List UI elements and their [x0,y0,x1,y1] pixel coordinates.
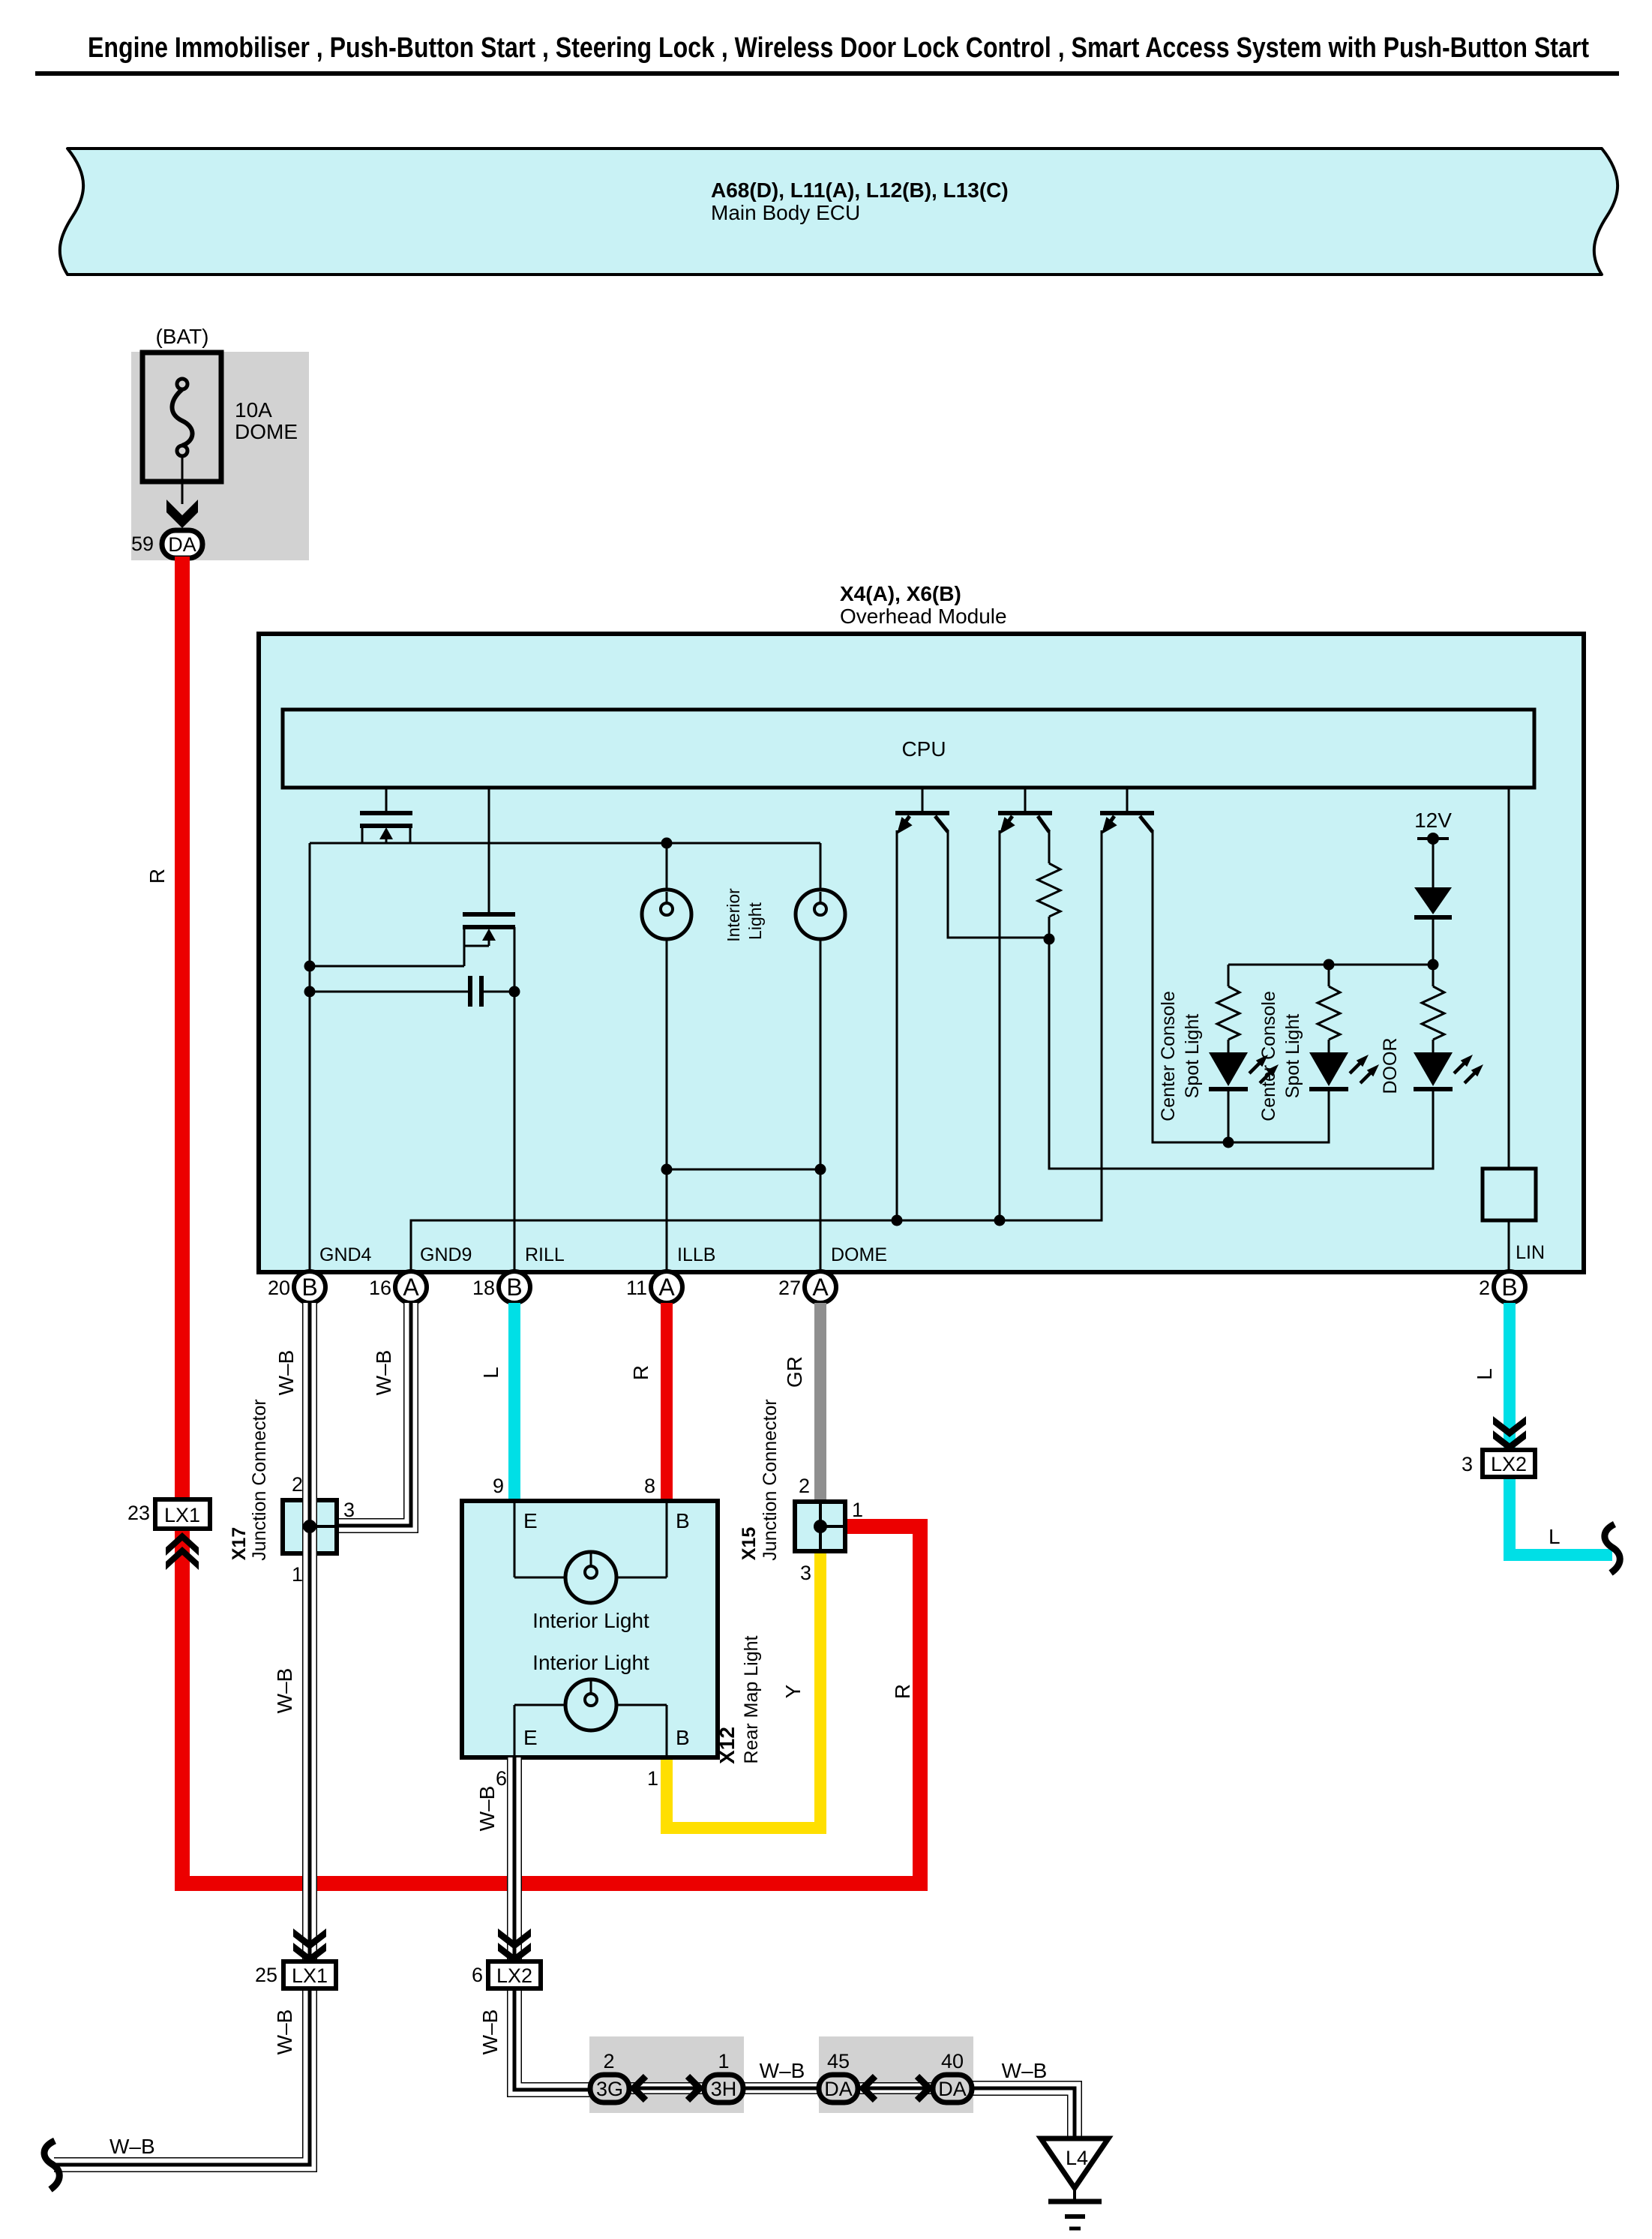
svg-text:Interior: Interior [724,888,743,942]
svg-text:Spot Light: Spot Light [1282,1014,1303,1099]
pin 18(B) RILL [499,1271,530,1303]
svg-text:1: 1 [852,1499,863,1521]
resistor R1 (Q4 collector) [1038,830,1060,939]
svg-text:A: A [658,1274,675,1301]
wire R: ILLB pin to X12 terminal 8 [661,1303,673,1504]
svg-text:Y: Y [781,1684,805,1698]
svg-text:23: 23 [127,1502,150,1524]
svg-text:E: E [523,1726,538,1749]
svg-text:W–B: W–B [273,1668,296,1714]
wire: lamp1 to ILLB pin [666,939,668,1271]
connector LX1 (23) [155,1499,210,1529]
svg-text:W–B: W–B [372,1350,395,1396]
svg-text:1: 1 [647,1767,658,1790]
svg-text:W–B: W–B [109,2135,155,2158]
resistor R3 (center console spot light 2) [1318,965,1340,1052]
transistor Q1 (MOSFET, high-side driver) [360,788,412,843]
svg-text:3: 3 [1462,1453,1473,1475]
svg-text:DOME: DOME [831,1244,887,1265]
lamp: X12 interior light 2 [514,1679,667,1757]
title underline [35,71,1619,76]
svg-text:2: 2 [1479,1277,1490,1299]
label Center Console Spot Light 1 (rotated) [1158,991,1203,1121]
ground L4 [1041,2138,1108,2228]
wire L: LIN pin to LX2 and break [1510,1303,1612,1555]
svg-text:CPU: CPU [901,737,946,761]
svg-text:20: 20 [268,1277,290,1299]
svg-text:B: B [676,1509,690,1532]
svg-text:GND4: GND4 [319,1244,372,1265]
svg-text:Center Console: Center Console [1258,991,1279,1121]
svg-text:GR: GR [783,1356,806,1388]
mating arrows DA/DA [863,2076,929,2100]
wire break squiggle (bottom right L) [1605,1524,1620,1573]
svg-text:A: A [812,1274,829,1301]
junction dot LED1 cathode [1223,1137,1234,1148]
junction dot Q3 emitter [892,1215,903,1226]
wire Y: X15 terminal 3 to X12 terminal 1 [667,1545,820,1828]
svg-text:12V: 12V [1414,809,1452,832]
wire W-B: DA to ground L4 [972,2088,1075,2138]
resistor R4 (door LED) [1422,965,1444,1052]
svg-text:L: L [1473,1368,1496,1380]
svg-text:16: 16 [369,1277,391,1299]
wire: Q4 emitter to ground rail [999,830,1001,1220]
svg-text:Junction Connector: Junction Connector [760,1399,781,1560]
fuse block background (gray) [131,352,309,560]
wire W-B: X12 terminal 6 to LX2 and splice [514,1757,594,2090]
chevrons into LX2 (3) [1493,1416,1526,1451]
wire break squiggle (bottom left W-B) [44,2141,59,2189]
svg-text:DOME: DOME [235,420,298,443]
label Center Console Spot Light 2 (rotated) [1258,991,1303,1121]
svg-text:A68(D), L11(A), L12(B), L13(C): A68(D), L11(A), L12(B), L13(C) [711,179,1009,202]
transistor Q3 (PNP) [892,788,949,839]
svg-text:3: 3 [800,1562,811,1584]
pin 16(A) GND9 [395,1271,427,1303]
chevrons into LX1 (25) [293,1928,326,1964]
connector terminal DA (40) [933,2075,972,2102]
wire GR: DOME pin to X15 [814,1303,826,1508]
svg-text:Overhead Module: Overhead Module [840,605,1007,628]
pin 11(A) ILLB [651,1271,682,1303]
svg-text:B: B [301,1274,317,1301]
wire: Q5 collector to spot light LEDs [1153,830,1329,1142]
transistor Q5 (PNP) [1096,788,1154,839]
wire R: battery feed DA(59) to X15 pin 1 [182,557,920,1883]
wire: LED1 cathode [1228,1089,1230,1142]
connector LX2 (3) [1483,1450,1535,1477]
svg-text:Spot Light: Spot Light [1182,1014,1203,1099]
junction dot capacitor right [509,986,520,998]
svg-text:E: E [523,1509,538,1532]
svg-text:LX2: LX2 [496,1964,532,1987]
pin 20(B) GND4 [294,1271,325,1303]
wire: Q2 source to left rail [310,965,464,968]
svg-text:6: 6 [472,1964,483,1986]
wire: Q3 emitter to ground rail [896,830,898,1220]
lamp: X12 interior light 1 [514,1501,667,1603]
label X4(A), X6(B) Overhead Module [840,582,1007,628]
svg-text:L4: L4 [1066,2147,1088,2169]
connector LX2 (6) [488,1961,541,1988]
junction dot anode rail mid [1324,959,1335,971]
capacitor C1 [310,976,514,1007]
svg-text:L: L [1549,1525,1561,1548]
node 12V supply [1417,833,1449,887]
wire: node to DOOR LED cathode [1049,939,1433,1169]
svg-text:11: 11 [626,1277,647,1299]
junction dot X15 [814,1520,827,1533]
wire W-B: GND9 pin to X17 terminal 3 [330,1303,411,1526]
wire fuse to connector DA [181,456,184,504]
lamp: interior light 2 [796,843,845,939]
junction connector X15 [795,1502,845,1551]
wire L: RILL pin to X12 terminal 9 [508,1303,520,1504]
wire: Q2 drain down to RILL [514,927,516,1271]
svg-text:W–B: W–B [274,1350,298,1396]
svg-text:DA: DA [168,533,196,556]
pin 2(B) LIN [1494,1271,1525,1303]
pin 27(A) DOME [805,1271,836,1303]
svg-text:Interior Light: Interior Light [532,1609,649,1632]
svg-text:RILL: RILL [525,1244,565,1265]
svg-text:10A: 10A [235,398,272,422]
junction dot left rail / Q2 [304,961,316,972]
LED D3 center console spot light 2 [1309,1052,1382,1089]
svg-text:R: R [891,1684,914,1699]
junction dot Q3/R1 node [1044,934,1055,945]
svg-text:R: R [629,1365,652,1380]
svg-text:27: 27 [778,1277,801,1299]
svg-text:2: 2 [292,1473,303,1496]
ECU banner: Main Body ECU A68(D),L11(A),L12(B),L13(C) [60,149,1618,275]
Overhead Module box [259,634,1584,1272]
svg-text:Interior Light: Interior Light [532,1651,649,1674]
svg-text:X12: X12 [715,1727,739,1764]
svg-text:1: 1 [718,2050,729,2072]
svg-text:1: 1 [292,1563,303,1586]
svg-text:W–B: W–B [1002,2059,1048,2082]
svg-text:L: L [479,1367,502,1379]
wire: CPU to LIN transceiver [1508,788,1510,1169]
junction dot X17 splice [303,1520,316,1533]
connector LX1 (25) [283,1961,336,1988]
connector terminal 3G [590,2075,629,2102]
svg-text:W–B: W–B [760,2059,805,2082]
transistor Q2 (MOSFET) [463,788,515,966]
svg-text:A: A [403,1274,419,1301]
junction connector X17 [283,1500,337,1553]
LED D2 center console spot light 1 [1209,1052,1282,1089]
svg-text:W–B: W–B [475,1786,499,1832]
svg-text:DOOR: DOOR [1380,1038,1401,1094]
chevrons below LX1 (pointing up) [166,1532,199,1570]
transistor Q4 (PNP) [994,788,1052,839]
connector terminal 3H [704,2075,743,2102]
svg-text:DA: DA [938,2078,967,2100]
wire W-B: GND4 pin through X17 and LX1 to body ground splice [54,1303,310,2165]
wire: lamp2 to DOME pin [820,939,822,1271]
svg-text:DA: DA [824,2078,853,2100]
svg-text:18: 18 [472,1277,495,1299]
junction dot tie left [661,1164,673,1175]
svg-text:B: B [506,1274,522,1301]
junction dot Q4 emitter [994,1215,1006,1226]
svg-text:Center Console: Center Console [1158,991,1179,1121]
junction dot capacitor left [304,986,316,998]
svg-text:(BAT): (BAT) [155,325,208,348]
title: system heading [35,32,1619,74]
mating arrows 3G/3H [634,2076,700,2100]
svg-text:45: 45 [827,2050,850,2072]
wire W-B: 3G to 3H joint [629,2082,704,2094]
chevrons into LX2 (6) [498,1928,531,1964]
diode D1 [1414,887,1452,965]
svg-text:ILLB: ILLB [677,1244,715,1265]
svg-text:X4(A), X6(B): X4(A), X6(B) [840,582,961,605]
wire: Q3 collector [948,830,1049,938]
lamp: interior light 1 [642,843,691,939]
svg-text:X17: X17 [229,1527,250,1560]
svg-text:X15: X15 [739,1527,760,1561]
wire: Q1 source rail to lamps [310,842,820,845]
svg-text:25: 25 [255,1964,277,1986]
rear map light X12 box [462,1501,718,1757]
svg-text:3H: 3H [711,2078,737,2100]
svg-text:Junction Connector: Junction Connector [249,1399,270,1560]
svg-text:W–B: W–B [273,2009,296,2055]
svg-text:2: 2 [799,1475,810,1497]
svg-text:LIN: LIN [1516,1242,1545,1263]
connector pair background (DA/DA) [819,2036,973,2113]
svg-text:9: 9 [493,1475,504,1497]
svg-text:3G: 3G [596,2078,623,2100]
CPU block U1 [283,710,1534,788]
wire: LED anode rail [1228,964,1433,966]
wire: lamp outputs tie [667,1169,820,1171]
svg-text:B: B [1501,1274,1517,1301]
wire W-B: DA to DA joint [859,2082,934,2094]
wire: ground rail GND9 to emitters [411,830,1102,1271]
svg-text:40: 40 [941,2050,964,2072]
LED D4 DOOR [1414,1052,1486,1089]
LIN transceiver box [1483,1169,1536,1271]
svg-text:GND9: GND9 [420,1244,472,1265]
wire W-B: 3H to DA [743,2082,819,2094]
svg-text:LX2: LX2 [1491,1453,1527,1475]
svg-text:Engine Immobiliser , Push-Butt: Engine Immobiliser , Push-Button Start ,… [88,32,1589,64]
connector terminal DA (45) [819,2075,858,2102]
svg-text:3: 3 [343,1499,355,1521]
svg-text:2: 2 [603,2050,614,2072]
junction dot lamp1 top [661,838,673,849]
junction dot anode rail right [1428,959,1439,971]
svg-text:W–B: W–B [478,2009,502,2055]
svg-text:B: B [676,1726,690,1749]
svg-text:Main Body ECU: Main Body ECU [711,201,860,224]
connector terminal DA (59) [162,530,202,558]
svg-text:LX1: LX1 [164,1504,200,1526]
wire: left rail down to GND4 [309,843,311,1271]
svg-text:R: R [145,869,169,884]
svg-text:59: 59 [131,533,154,555]
svg-text:Light: Light [745,902,765,939]
junction dot tie right [815,1164,826,1175]
label Interior Light (rotated) [724,888,765,942]
svg-text:Rear Map Light: Rear Map Light [741,1635,762,1763]
resistor R2 (center console spot light 1) [1217,965,1240,1052]
fuse 10A DOME [142,353,221,482]
connector pair background (3G/3H) [589,2036,744,2113]
svg-text:8: 8 [644,1475,655,1497]
arrow into connector DA [166,500,198,528]
svg-text:LX1: LX1 [292,1964,328,1987]
